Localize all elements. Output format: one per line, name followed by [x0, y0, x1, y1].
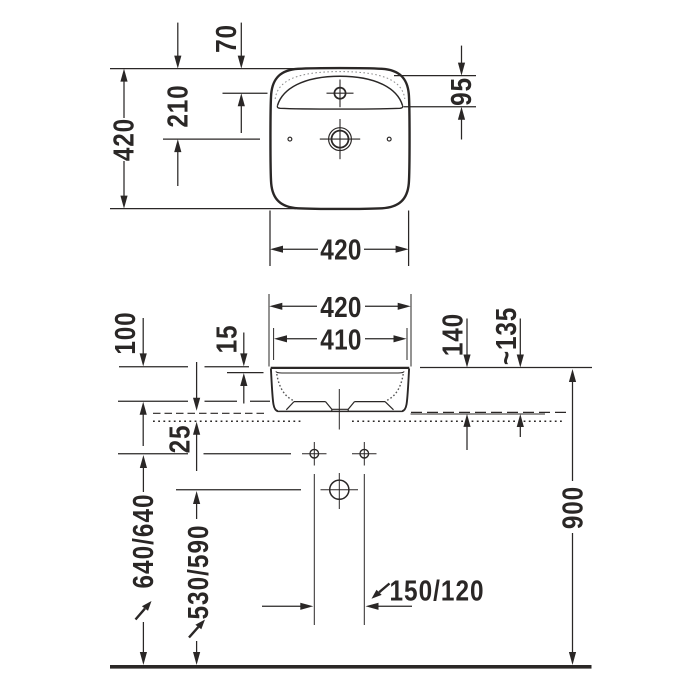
elev: bowl-bottom level line segs [118, 400, 188, 402]
dim 530/590: lower line+arrow [196, 641, 198, 655]
elevation: inner rim line [276, 372, 404, 374]
elev: countertop dashed line left [153, 412, 268, 414]
dim 25: upper arrow [196, 362, 198, 399]
elev: drain hole level line [176, 489, 301, 491]
dim 640/640: lower line+arrow [142, 622, 144, 655]
elevation: drain box left side [331, 409, 333, 411]
dim ~135: upper arrow [519, 319, 521, 356]
elevation: bowl bottom right segment [355, 401, 386, 403]
elev: right fixing hole crosshair [352, 453, 377, 455]
dim 640/640: leader arrow [136, 609, 145, 620]
svg-text:900: 900 [556, 486, 588, 529]
dim 150/120: right arrow+tail [366, 603, 379, 610]
elev: countertop line right solid [411, 413, 546, 415]
dim 420 elev: right extension line [410, 294, 412, 367]
elev: left fixing hole crosshair [302, 453, 327, 455]
plan view: left fixing hole [288, 137, 292, 141]
plan view: right fixing hole [387, 137, 391, 141]
svg-text:530/590: 530/590 [182, 524, 214, 619]
dim 410 elev: left extension line [273, 328, 275, 360]
plan view: faucet hole circle [334, 88, 345, 99]
plan view: inner basin rim arc [278, 76, 403, 105]
svg-text:70: 70 [210, 24, 242, 53]
svg-text:420: 420 [320, 291, 361, 323]
dim 15: lower arrow [240, 373, 247, 386]
elevation: inner bowl left profile (stipple) [277, 374, 294, 401]
elevation: left foot outer slant [286, 402, 294, 410]
plan: faucet level extension line [223, 92, 268, 94]
elev: lower dotted line right [352, 420, 564, 422]
elev: 15-line (inner rim level) [227, 372, 264, 374]
floor line [110, 665, 592, 669]
elevation: basin right outer wall [402, 369, 409, 412]
dim 150/120: right extension line [363, 474, 365, 625]
svg-text:~135: ~135 [490, 307, 522, 365]
dim 210: upper extension+arrow [177, 23, 179, 57]
dim 95: upper arrow [461, 46, 463, 64]
dim 420 elev: right tail+arrow [365, 305, 398, 307]
plan view: drain inner circle [332, 131, 349, 148]
plan view: drain crosshair vertical [339, 119, 341, 159]
plan: drain level extension line [163, 138, 260, 140]
plan: bottom edge reference line [110, 208, 296, 210]
dim 420 elev: left extension line [268, 294, 270, 367]
dim 420 plan-left: upper arrow [120, 69, 127, 82]
dim 420 elev: left arrow+tail [269, 303, 282, 310]
dim 150/120: leader arrow [379, 584, 389, 593]
dim 100: lower arrow [140, 402, 147, 415]
svg-text:95: 95 [445, 77, 477, 106]
dim 410 elev: left arrow+tail [274, 335, 287, 342]
dim 95: top reference line (inner rim apex level) [394, 75, 476, 77]
elevation: center axis line [338, 389, 340, 430]
svg-text:420: 420 [320, 234, 361, 266]
elevation: left foot inner slant [326, 402, 332, 410]
dim 150/120: left extension line [313, 474, 315, 625]
dim ~135: lower arrow [517, 414, 524, 427]
dim 410 elev: right extension line [406, 328, 408, 360]
svg-text:420: 420 [107, 118, 139, 161]
elev: right fixing hole circle [360, 449, 369, 458]
dim 530/590: leader arrow [189, 627, 198, 638]
plan view: tap deck front edge line [277, 105, 402, 109]
elev: drain outlet crosshair [321, 489, 359, 491]
plan: top edge reference line [110, 68, 294, 70]
elevation: basin left outer wall [271, 369, 278, 412]
svg-text:100: 100 [109, 311, 141, 354]
elevation: drain box top [332, 408, 348, 410]
svg-text:15: 15 [210, 325, 242, 354]
plan view: drain outer circle [329, 128, 352, 151]
dim 420 plan-bottom: right tail+arrow [364, 248, 396, 250]
elev: rim level line right (long) [420, 367, 592, 369]
plan view: faucet hole crosshair vertical [339, 80, 341, 108]
elevation: bowl bottom left segment [294, 401, 326, 403]
dim 900: lower line+arrow [572, 533, 574, 655]
elev: fixing holes level line segs [118, 453, 188, 455]
dim 420 plan-bottom: right extension line [408, 211, 410, 267]
plan view: basin outer outline (squircle) [270, 68, 409, 209]
dim 150/120: left tail+arrow [262, 605, 301, 607]
dim 420 plan-bottom: left extension line [269, 211, 271, 267]
elevation: right foot inner slant [348, 402, 354, 410]
elevation: right foot outer slant [385, 402, 394, 410]
dim 70: upper extension+arrow [240, 23, 242, 57]
dim 640/640: upper arrow [140, 455, 147, 468]
svg-text:25: 25 [163, 425, 195, 454]
dim 100: upper arrow [142, 318, 144, 355]
elevation: basin top rim edge [271, 367, 410, 369]
elev: left fixing hole circle [310, 449, 319, 458]
dim 420 plan-bottom: left arrow+tail [270, 246, 283, 253]
elev: countertop dashed overlay right [411, 411, 566, 413]
elevation: drain box right side [347, 409, 349, 411]
dim 25: lower arrow [193, 422, 200, 435]
elev: rim level line left segs [119, 366, 188, 368]
dim 210: lower arrow [174, 139, 181, 152]
dim 140: lower arrow [463, 414, 470, 427]
dim 900: upper arrow [569, 369, 576, 382]
svg-text:140: 140 [436, 313, 468, 356]
plan view: faucet hole crosshair horizontal [327, 92, 354, 94]
dim 95: bottom reference line (deck level) [404, 106, 477, 108]
dim 70: lower arrow [238, 93, 245, 106]
dim 530/590: upper arrow [193, 491, 200, 504]
dim 15: upper arrow [243, 333, 245, 355]
svg-text:410: 410 [320, 323, 361, 355]
dim 140: upper arrow [466, 319, 468, 356]
dim 95: lower arrow [458, 107, 465, 120]
plan view: inner rim shading (stipple) [275, 72, 405, 99]
svg-text:150/120: 150/120 [389, 574, 484, 606]
elevation: basin bottom edge [278, 410, 403, 412]
dim 410 elev: right tail+arrow [365, 338, 394, 340]
dim 420 plan-left: lower arrow [123, 161, 125, 196]
plan view: drain crosshair horizontal [320, 138, 360, 140]
svg-text:640/640: 640/640 [127, 493, 159, 588]
elev: drain outlet circle [330, 480, 349, 499]
elevation: inner bowl right profile (stipple) [386, 374, 403, 401]
svg-text:210: 210 [161, 84, 193, 127]
elev: lower dotted line left [153, 420, 301, 422]
